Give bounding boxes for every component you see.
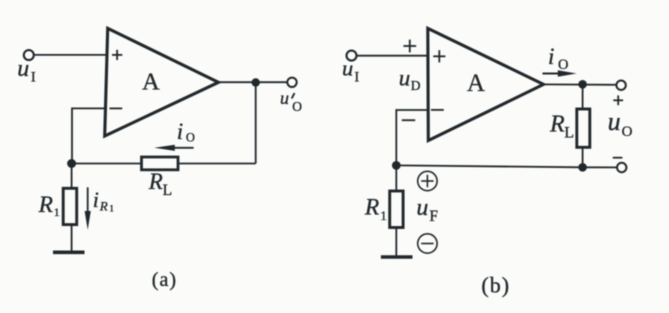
svg-text:i: i — [93, 187, 99, 212]
label u'_O (a) — [280, 88, 302, 114]
svg-text:i: i — [177, 119, 183, 144]
op-amp - input marker (a) — [110, 107, 123, 109]
svg-text:A: A — [142, 68, 160, 95]
label i_O (b) — [548, 44, 568, 73]
svg-text:u: u — [399, 66, 411, 91]
node bottom rail left junction (b) — [392, 161, 401, 170]
ground (a) — [53, 251, 85, 255]
wire node to R_L (a) — [72, 163, 142, 165]
wire op-amp output (a) — [218, 81, 288, 83]
resistor R_L (a) — [142, 157, 179, 170]
resistor R1 (b) — [390, 191, 403, 228]
svg-text:D: D — [411, 78, 421, 93]
svg-text:R: R — [38, 192, 53, 218]
wire R1 to ground (a) — [71, 225, 73, 252]
terminal output + u_O (b) — [616, 81, 625, 90]
svg-text:R: R — [549, 111, 565, 137]
arrow i_O (a) — [154, 145, 193, 151]
wire R_L to bottom rail (b) — [582, 147, 584, 167]
label u_O (b) — [608, 107, 633, 140]
node output junction (b) — [578, 80, 587, 89]
ground (b) — [381, 255, 413, 259]
node feedback junction (a) — [67, 159, 76, 168]
wire input terminal to op-amp + input (a) — [34, 54, 107, 56]
op-amp A1 triangle (a) — [105, 28, 219, 136]
terminal output u'_O (a) — [287, 78, 296, 87]
wire node to R1 (a) — [71, 164, 73, 189]
label - polarity u_O (b) — [613, 157, 623, 159]
svg-text:L: L — [163, 182, 172, 199]
label - polarity at - input (b) — [402, 119, 415, 121]
label u_I (a) — [17, 56, 36, 85]
svg-text:1: 1 — [109, 203, 114, 213]
svg-text:O: O — [292, 99, 302, 114]
svg-text:O: O — [558, 57, 568, 73]
svg-text:u: u — [416, 195, 428, 221]
svg-text:u: u — [608, 107, 621, 136]
svg-text:O: O — [186, 131, 195, 145]
terminal output - (b) — [617, 163, 626, 172]
svg-text:R: R — [99, 198, 108, 213]
wire input terminal to op-amp + input (b) — [356, 55, 427, 57]
svg-text:(a): (a) — [152, 269, 177, 291]
svg-text:I: I — [31, 69, 36, 85]
svg-text:1: 1 — [54, 205, 60, 219]
wire - input to feedback node (b) — [396, 110, 427, 165]
wire R_L to output branch (a) — [178, 163, 256, 165]
svg-text:I: I — [354, 69, 359, 85]
label + polarity u_O (b) — [613, 95, 623, 105]
wire output branch vertical (a) — [255, 83, 257, 164]
label u_F (b) — [416, 195, 438, 225]
label i_R1 (a) — [93, 187, 114, 213]
svg-text:L: L — [564, 124, 574, 141]
svg-text:F: F — [429, 208, 438, 225]
label R1 (b) — [364, 195, 387, 223]
wire op-amp output (b) — [543, 83, 617, 85]
wire - input to feedback node (a) — [72, 108, 107, 163]
symbol - polarity u_F (b) — [418, 234, 437, 253]
arrow i_O (b) — [543, 70, 577, 76]
svg-text:R: R — [148, 169, 163, 194]
resistor R1 (a) — [63, 188, 76, 224]
op-amp + input marker (a) — [112, 50, 122, 60]
op-amp - input marker (b) — [431, 109, 444, 111]
svg-text:u: u — [280, 88, 289, 108]
label R1 (a) — [38, 192, 60, 219]
label u_D (b) — [399, 66, 421, 94]
label R_L (a) — [148, 169, 172, 199]
svg-text:A: A — [467, 70, 485, 97]
svg-text:O: O — [622, 124, 633, 140]
op-amp A2 triangle (b) — [428, 28, 544, 140]
op-amp + input marker (b) — [433, 50, 445, 62]
resistor R_L (b) — [577, 109, 590, 147]
svg-text:u: u — [17, 56, 29, 82]
wire R1 to ground (b) — [395, 228, 397, 256]
svg-text:u: u — [342, 56, 353, 81]
label + polarity at + input (b) — [403, 40, 416, 53]
svg-text:R: R — [364, 195, 379, 221]
svg-text:i: i — [548, 44, 554, 69]
label u_I (b) — [342, 56, 359, 86]
node output junction (a) — [252, 78, 260, 86]
wire node to R_L (b) — [582, 84, 584, 109]
symbol + polarity u_F (b) — [418, 171, 437, 190]
node bottom rail right junction (b) — [578, 163, 587, 172]
terminal input u_I (a) — [24, 50, 34, 60]
wire bottom rail (b) — [396, 165, 616, 167]
label R_L (b) — [549, 111, 574, 141]
label i_O (a) — [177, 119, 195, 145]
svg-text:(b): (b) — [481, 273, 510, 298]
arrow i_R1 (a) — [85, 187, 91, 230]
wire node to R1 (b) — [395, 165, 397, 191]
terminal input u_I (b) — [347, 51, 357, 61]
svg-text:1: 1 — [380, 208, 387, 223]
